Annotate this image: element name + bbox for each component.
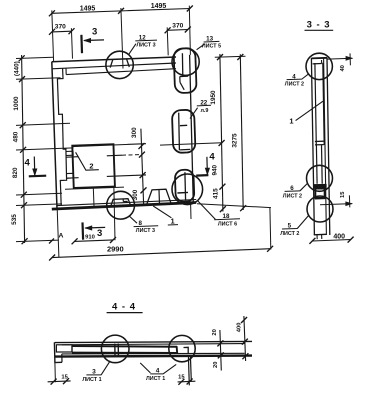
3-3 bottom stubs (316, 235, 318, 239)
dim 370R tick b (185, 27, 191, 33)
left chain tick 3 (20, 122, 26, 128)
svg-text:20: 20 (212, 329, 218, 335)
dimension line 1495+1495 (52, 9, 190, 14)
callout circle 3-3 middle (307, 165, 333, 191)
label 5 sheet2 leader (297, 215, 309, 228)
4-4 left pocket (56, 345, 72, 352)
section 4 cut arrow left (33, 157, 36, 176)
svg-text:4: 4 (209, 152, 215, 163)
right chain tick 4 (220, 206, 226, 212)
dim 1495 witness left (52, 10, 54, 61)
dimension line 370 right (167, 29, 188, 32)
4-4 inner panel left cap (71, 346, 73, 353)
right chain tick 2 (219, 140, 225, 146)
4-4 dim 400 tick bot (242, 353, 248, 359)
svg-text:370: 370 (55, 23, 66, 30)
4-4 dim 15L tick b (63, 378, 69, 384)
dim 300 tick c (140, 172, 146, 178)
svg-text:3: 3 (92, 27, 97, 38)
wall stub below bottom-right corner (190, 203, 192, 219)
4-4 inner panel bottom (72, 352, 177, 354)
svg-text:ЛИСТ 6: ЛИСТ 6 (218, 222, 237, 228)
bent plate 1 outline (146, 189, 171, 205)
svg-text:40: 40 (340, 65, 346, 71)
slot capsule K1 weld tick (180, 75, 189, 78)
svg-text:910: 910 (85, 234, 95, 240)
left chain ext y58 (16, 57, 53, 58)
4-4 dim 20 tick b (218, 352, 224, 358)
svg-text:15: 15 (340, 191, 346, 198)
dim 370R witness (167, 27, 168, 55)
3-3 column left edge (311, 58, 314, 235)
label 1 leader (153, 206, 171, 218)
callout circle 3-3 bottom (307, 196, 333, 222)
svg-text:480: 480 (13, 131, 20, 142)
svg-text:400: 400 (333, 233, 345, 240)
label 5 sheet2 underline (282, 228, 298, 231)
svg-text:1950: 1950 (210, 90, 217, 105)
svg-text:8: 8 (138, 220, 142, 227)
3-3 dim 400 line (312, 240, 351, 242)
bent plate 1 centre rib (158, 190, 161, 205)
dimension line 910 (74, 240, 113, 242)
svg-text:535: 535 (11, 214, 18, 225)
3-3 inner panel bottom cap (315, 140, 324, 142)
label 4 sheet1 leader a (163, 364, 176, 373)
4-4 left witness (54, 363, 57, 383)
section 3 cut bar bottom (81, 222, 84, 239)
dim 300 tick a (139, 143, 145, 149)
section 4 cut bar right (196, 174, 208, 177)
axis A witness line (57, 209, 59, 258)
3-3 top arrow line (327, 57, 352, 60)
svg-text:1495: 1495 (151, 3, 167, 10)
label 22 underline (197, 104, 211, 107)
svg-text:ЛИСТ 2: ЛИСТ 2 (283, 193, 302, 199)
svg-text:15: 15 (178, 374, 185, 380)
bent plate detail in circle (111, 199, 131, 207)
wall plan right edge (190, 55, 194, 204)
callout circle 4-4 left (101, 335, 129, 363)
dim 370R tick a (165, 27, 171, 33)
svg-text:1495: 1495 (80, 6, 96, 13)
svg-text:ЛИСТ 5: ЛИСТ 5 (202, 44, 221, 50)
label 8 leader (129, 216, 137, 224)
slot capsule K2 weld tick (180, 124, 187, 126)
dim 370L tick a (49, 29, 55, 35)
label 6 sheet2 leader (300, 183, 308, 191)
right chains top ext (215, 56, 246, 57)
slot capsule K2 middle right (172, 110, 196, 153)
4-4 dim 15 left line (48, 380, 71, 383)
3-3 dim 400 tick a (309, 238, 315, 244)
dimension line 2990 (52, 249, 270, 258)
left chain ext y205 (16, 204, 62, 206)
label 3 sheet1 leader (101, 361, 110, 375)
wall plan left outer edge (52, 62, 57, 209)
4-4 bracket detail (184, 347, 189, 353)
svg-text:2: 2 (89, 161, 93, 170)
3-3 top arrow cross (349, 53, 351, 65)
3-3 lower box (315, 189, 324, 198)
dim 370L tick b (69, 28, 75, 34)
section 4 cut bar left (29, 175, 46, 178)
section 4-4 title underline (107, 312, 143, 314)
4-4 dim 20 line (220, 330, 221, 371)
3-3 column right edge outer (327, 58, 330, 235)
4-4 dim 400 tick top (241, 317, 247, 323)
left chain tick 7 (22, 238, 28, 244)
svg-text:ЛИСТ 1: ЛИСТ 1 (82, 377, 101, 383)
svg-text:A: A (59, 232, 64, 239)
4-4 left hook outer (53, 342, 56, 362)
svg-text:л.9: л.9 (200, 108, 208, 114)
callout circle 4-4 right (169, 335, 195, 361)
dim 1495 tick middle (118, 8, 124, 14)
dim 3275 tick top (237, 54, 243, 60)
4-4 dim 400 line (244, 316, 246, 361)
4-4 dim 15R tick b (187, 379, 193, 385)
4-4 panel joint bars (114, 344, 116, 356)
callout circle bent plate (107, 191, 135, 219)
right chain ext y143 (160, 143, 222, 145)
witness square right edge down (114, 188, 115, 240)
label 1 underline (168, 224, 178, 226)
4-4 inner panel top (72, 345, 177, 348)
wall plan left inner profile (57, 69, 66, 206)
svg-text:3: 3 (97, 228, 102, 239)
4-4 left hook inner (61, 354, 63, 362)
3-3 dim 400 tick b (348, 237, 354, 243)
svg-text:415: 415 (213, 188, 220, 199)
3-3 dim 15 line (320, 204, 352, 205)
wall plan top edge lower step line (66, 69, 176, 75)
4-4 dim 15L tick a (51, 379, 57, 385)
wall plan top edge inner line (52, 63, 176, 69)
label 13 leader (197, 44, 205, 50)
4-4 slab bottom face lower (55, 356, 252, 357)
dimension line 300 vertical (141, 129, 144, 204)
3-3 inner panel left line (315, 63, 316, 145)
label 13 underline (204, 40, 220, 43)
svg-text:4: 4 (25, 157, 31, 168)
section 3 cut bar top (80, 35, 83, 53)
axis witness tick (49, 239, 54, 244)
slot capsule K1 chord lower (179, 77, 181, 83)
3-3 insert piece right (321, 145, 324, 184)
svg-text:3275: 3275 (231, 133, 238, 148)
label 2 leader (76, 152, 99, 170)
3-3 inner panel right line (323, 63, 324, 145)
4-4 dim 20 tick a (217, 340, 223, 346)
wall plan top edge outer line (52, 57, 176, 62)
svg-text:20: 20 (213, 362, 219, 368)
svg-text:3 - 3: 3 - 3 (307, 20, 331, 31)
label 4 sheet2 leader (302, 74, 309, 79)
svg-text:4 - 4: 4 - 4 (112, 301, 136, 312)
label 18 underline (214, 219, 240, 220)
svg-text:15: 15 (61, 375, 68, 381)
plate 2 side tick lower left (66, 177, 78, 180)
4-4 tab below slab (187, 356, 190, 386)
svg-text:1: 1 (171, 217, 175, 226)
slot capsule K3 weld tick (177, 191, 188, 194)
3-3 top detail notch (313, 63, 322, 65)
dim 300 tick b (139, 152, 145, 158)
left chain ext y149 (16, 148, 74, 150)
3-3 lower box bottom cap (315, 197, 325, 199)
right chain tick 1 (217, 54, 223, 60)
svg-text:940: 940 (212, 164, 219, 175)
dim 3275 tick bottom (240, 205, 246, 211)
dimension chain left vertical line (22, 55, 25, 243)
dim 300 tick d (141, 187, 147, 193)
svg-text:2990: 2990 (107, 244, 124, 253)
svg-text:ЛИСТ 1: ЛИСТ 1 (146, 376, 165, 382)
right chain ext bottom (197, 204, 271, 208)
svg-text:ЛИСТ 2: ЛИСТ 2 (280, 231, 299, 237)
section 3-3 title underline (305, 29, 334, 31)
plate 2 hidden dash line (122, 154, 142, 157)
slot capsule K2 bottom tick (180, 148, 190, 151)
svg-text:400: 400 (237, 323, 243, 333)
3-3 dim 15 vertical (348, 195, 350, 207)
4-4 dim 15 right line (178, 380, 196, 383)
plate 2 side tick lower right line (107, 175, 146, 177)
dim 1495 tick right (187, 6, 193, 12)
label 12 underline (135, 39, 157, 42)
left chain tick 6 (21, 202, 27, 208)
dimension line 1950/940/415 (220, 54, 223, 212)
left chain tick 2 (19, 76, 25, 82)
wall plan bottom edge inner (57, 200, 196, 206)
svg-text:13: 13 (206, 36, 213, 43)
callout circle 3-3 top (306, 53, 332, 79)
label 8 underline (134, 225, 159, 228)
left chain ext y241 (16, 240, 59, 242)
bent plate 12 left side (110, 60, 113, 68)
svg-text:820: 820 (12, 167, 19, 178)
3-3 column bottom cap (314, 233, 326, 236)
dim 1495 tick left (49, 10, 55, 16)
slot capsule K3 chord (184, 172, 187, 200)
svg-text:22: 22 (200, 99, 207, 106)
dim 2990 tick left (49, 255, 55, 261)
slot capsule K1 top right (174, 48, 197, 93)
4-4 slab top face lower (62, 344, 245, 345)
left chain ext y194 (16, 193, 62, 195)
slot capsule K1 weld diagonal (180, 82, 184, 90)
3-3 column right edge inner (324, 58, 327, 235)
left chain tick 4 (20, 147, 26, 153)
section 4 cut arrow right (206, 157, 209, 175)
4-4 left hook bottom (54, 361, 62, 363)
svg-text:4: 4 (156, 367, 160, 374)
3-3 top arrow head (346, 56, 354, 61)
label 6 sheet2 underline (285, 190, 301, 193)
callout circle on capsule K1 (172, 48, 199, 75)
slot capsule K2 chord (178, 113, 181, 151)
bent plate 12 right side (127, 59, 130, 67)
right chain tick 3 (219, 184, 225, 190)
3-3 insert piece left (315, 145, 318, 184)
wall plan left tab upper (66, 151, 73, 155)
svg-text:1: 1 (289, 116, 293, 125)
wall plan bottom edge outer (52, 203, 196, 210)
witness right of 2990 (269, 208, 272, 250)
left chain tick 1 (19, 55, 25, 61)
label 1 3-3 leader (296, 101, 323, 120)
label 18 leader (197, 200, 215, 219)
callout circle 12 on top edge (106, 51, 133, 78)
dim 1495 witness middle (121, 8, 123, 69)
3-3 column top cap (311, 57, 327, 60)
svg-text:1000: 1000 (13, 96, 20, 111)
section 3 arrow top (84, 39, 104, 42)
plate 2 under line (65, 187, 124, 189)
label 12 leader (129, 44, 136, 55)
4-4 dim 15R tick a (178, 379, 184, 385)
dimension line 370 left (52, 30, 72, 33)
left chain ext y79 (16, 78, 61, 80)
dim 370L witness (71, 28, 72, 58)
svg-text:3: 3 (92, 368, 96, 375)
svg-text:ЛИСТ 2: ЛИСТ 2 (285, 82, 304, 88)
dim 2990 tick right (267, 246, 273, 252)
dimension line 3275 (240, 54, 243, 210)
left chain ext y125 (16, 123, 70, 125)
svg-text:12: 12 (139, 34, 146, 41)
left chain tick 5 (21, 192, 27, 198)
bent plate detail notch (122, 199, 124, 202)
svg-text:(440): (440) (14, 61, 21, 76)
embedded plate 2 square outline (72, 144, 115, 188)
dim 910 tick a (72, 238, 78, 244)
svg-text:370: 370 (172, 23, 183, 30)
label 4 sheet1 leader b (140, 363, 150, 373)
4-4 inner panel right cap (176, 346, 179, 353)
dim 1495 witness right (189, 6, 190, 55)
dim 910 tick b (110, 237, 116, 243)
3-3 joint plate (313, 184, 326, 189)
plate 2 side tick upper right (107, 154, 122, 157)
3-3 dim 15 arrow head (345, 201, 353, 206)
slot capsule K1 chord (181, 53, 183, 76)
wall plan top edge step connector (65, 68, 67, 74)
4-4 dim 400 tick mid (242, 339, 248, 345)
svg-text:18: 18 (223, 213, 230, 220)
svg-text:ЛИСТ 3: ЛИСТ 3 (136, 228, 155, 234)
4-4 slab top face upper (55, 341, 252, 342)
wall plan left tab lower (67, 173, 74, 178)
4-4 slab bottom face upper (62, 352, 245, 355)
label 3 sheet1 underline (86, 374, 101, 376)
label 22 leader (190, 108, 198, 119)
label 4 sheet2 underline (287, 78, 303, 81)
plate 2 top edge extension line (72, 144, 146, 147)
section 3 arrow bottom (85, 226, 105, 229)
label 4 sheet1 underline (150, 373, 163, 375)
slot capsule K3 bottom right (175, 169, 195, 201)
plate 2 side tick upper left (66, 156, 78, 159)
svg-text:300: 300 (131, 127, 138, 138)
centre line below plate 2 (92, 188, 95, 207)
callout circle on capsule K3 (172, 174, 203, 205)
svg-text:ЛИСТ 3: ЛИСТ 3 (136, 43, 155, 49)
